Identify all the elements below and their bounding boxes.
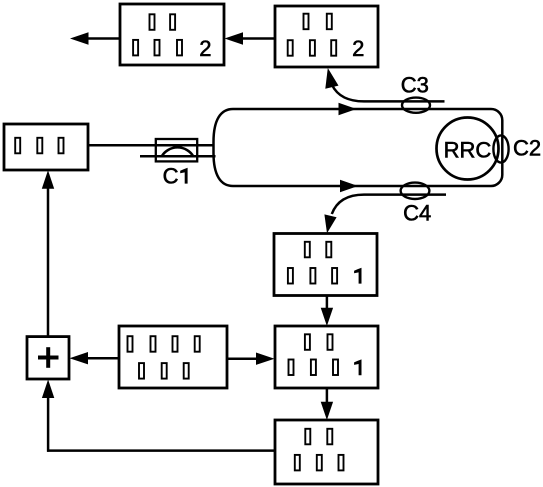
racetrack resonator loop [214,109,503,186]
svg-text:RRC: RRC [444,137,492,162]
arrowhead down into box B1 [321,308,333,326]
svg-text:2: 2 [352,36,364,61]
arrowhead into box T1 pointing left [225,32,244,44]
coupler C1 rectangle [156,139,197,161]
svg-text:C2: C2 [513,136,541,161]
arrowhead up into box T2 [325,68,338,89]
svg-text:2: 2 [199,36,211,61]
wire T1 output arrow line [87,37,120,40]
arrowhead on racetrack bottom pointing right [340,180,358,192]
wire feedback B2 to adder horizontal [47,449,275,452]
arrowhead down into box D1 [324,214,336,233]
arrowhead up into adder bottom [42,380,54,399]
coupler C1 bump arc [162,147,194,156]
box T1 detector 2 output [120,4,224,65]
arrowhead left into adder [70,352,89,364]
arrowhead on racetrack top pointing right [339,103,357,115]
box L laser source [4,124,88,170]
wire L to racetrack upper [88,144,214,147]
adder plus box [27,337,69,379]
wire M to adder [86,357,119,360]
svg-text:C4: C4 [403,200,431,225]
coupler C4 ellipse [401,183,430,199]
wire adder up to box L [47,187,50,337]
arrowhead down into box B2 [321,402,333,420]
box D1 detector 1 [274,234,377,296]
wire C1 lower stub [140,155,216,158]
svg-text:C3: C3 [401,72,429,97]
wire bottom drop waveguide through C4 [332,195,446,214]
ring resonator cavity RRC circle [437,118,499,180]
coupler C2 ellipse [493,135,508,162]
arrowhead up into box L [42,170,54,189]
wire feedback vertical [47,396,50,452]
box T2 detector 2 [275,6,378,67]
wire T2 to T1 [241,37,275,40]
box M modulator driver [119,326,227,388]
wire B1 to B2 [326,389,329,404]
arrowhead out of box T1 pointing left [70,32,89,44]
svg-text:C: C [163,164,179,189]
box B2 signal generator [275,420,378,484]
wire top drop waveguide through C3 [332,85,445,101]
wire M to B1 [227,357,258,360]
wire D1 to B1 [326,296,329,310]
box B1 amplifier 1 [275,326,378,388]
coupler C3 ellipse [402,98,430,113]
arrowhead right into box B1 [256,353,275,365]
